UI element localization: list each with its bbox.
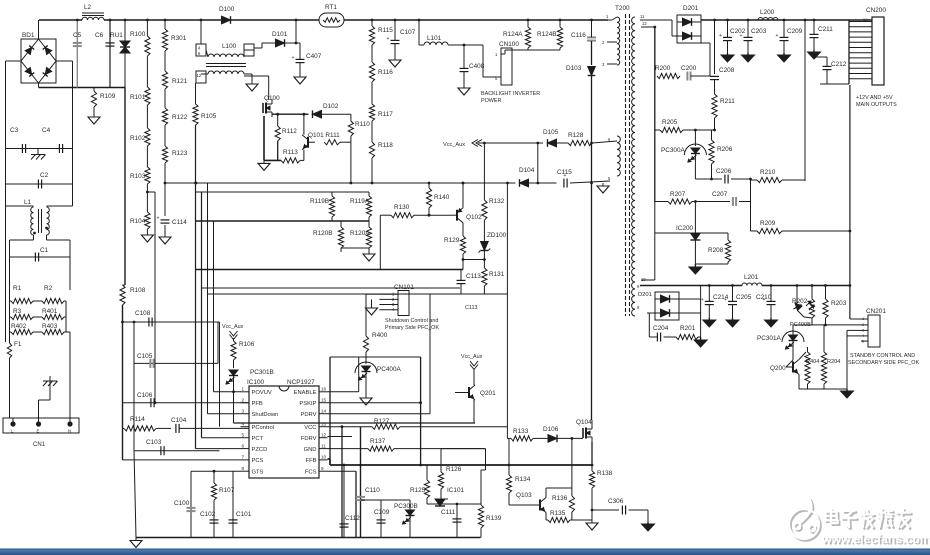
capacitor C212 (823, 57, 832, 84)
resistor R119B (329, 192, 334, 221)
wire v655 lower (654, 233, 656, 280)
CN201 pin 5 (861, 340, 868, 342)
capacitor C202 (719, 20, 732, 53)
junction L200 (726, 19, 729, 22)
transistor Q101 (302, 135, 315, 150)
capacitor C5 plates (73, 43, 82, 46)
svg-text:PC300B: PC300B (394, 503, 418, 510)
resistor R101 (145, 87, 150, 105)
ground L100 (246, 80, 258, 91)
MOSFET Q104 (583, 424, 592, 442)
ground Q100 source (258, 160, 270, 170)
T200 primary winding (617, 17, 620, 65)
wire R122-R123 (164, 125, 166, 146)
wire pin2 jog (606, 41, 608, 43)
resistor R131 (482, 268, 487, 286)
ground PC400A (360, 396, 372, 405)
capacitor C101 (229, 520, 238, 523)
svg-text:FCS: FCS (305, 469, 317, 475)
svg-text:D104: D104 (519, 167, 535, 174)
IC100 pin 3 ShutDown (241, 413, 250, 415)
wire C306 gnd drop (647, 510, 649, 522)
optocoupler PC301A (782, 331, 804, 349)
svg-text:PC300A: PC300A (661, 147, 686, 154)
ground C214 (703, 318, 716, 327)
svg-text:C115: C115 (557, 169, 572, 176)
wire D200 out join (700, 22, 702, 36)
svg-text:C200: C200 (681, 65, 697, 72)
svg-text:C202: C202 (730, 28, 746, 35)
optocoupler PC300B led (403, 510, 415, 524)
resistor R140 (426, 183, 431, 215)
svg-text:Q104: Q104 (576, 419, 592, 426)
resistor R134 (506, 475, 511, 493)
svg-text:R110: R110 (355, 121, 370, 128)
transistor Q102 (450, 208, 463, 223)
wire D201 riser (700, 286, 702, 300)
svg-text:11: 11 (321, 443, 326, 448)
wire Q201 emitter (473, 400, 475, 423)
junction C107 (394, 19, 397, 22)
svg-text:N: N (68, 429, 71, 434)
svg-text:Vcc_Aux: Vcc_Aux (443, 142, 465, 148)
capacitor C100 (187, 508, 196, 511)
ground C209 (778, 53, 791, 62)
svg-text:C109: C109 (374, 509, 390, 516)
wire C103 row (134, 450, 220, 452)
wire L1 right to line (47, 239, 71, 241)
svg-text:C116: C116 (571, 32, 586, 39)
wire R134 bottom (508, 493, 510, 505)
svg-text:R112: R112 (282, 128, 297, 135)
wire top rail D100-RT1 (231, 19, 319, 21)
junction R203 pin2 (824, 324, 827, 327)
capacitor C3 (22, 144, 25, 153)
chassis ground EMI (31, 149, 46, 160)
svg-text:C107: C107 (400, 29, 416, 36)
rectifier D201 box (655, 292, 679, 320)
svg-text:R117: R117 (378, 111, 393, 118)
wire to CN100 pin5 (482, 45, 484, 77)
wire R133 corner down (506, 427, 508, 439)
svg-text:R132: R132 (489, 198, 505, 205)
ground under C107 (389, 56, 401, 67)
resistor R132 (482, 143, 487, 220)
wire D201 out b (670, 312, 701, 314)
junction PSKIP v420 (419, 401, 422, 404)
svg-text:+: + (157, 216, 160, 222)
CN200 pin 5 (849, 57, 872, 59)
IC IC100 box (249, 386, 319, 478)
junction C306 row (591, 509, 594, 512)
wire C106 row (123, 402, 250, 404)
wire right AC line mid (72, 88, 74, 207)
svg-text:C100: C100 (174, 500, 190, 507)
resistor R115 (369, 20, 374, 45)
CN200 pin 1 (849, 78, 872, 80)
svg-text:IC200: IC200 (676, 225, 693, 232)
wire L1 right down (46, 235, 48, 240)
wire R1-R2 (33, 300, 42, 302)
svg-text:D201: D201 (638, 292, 652, 298)
wire rail to L101 (418, 20, 420, 45)
svg-text:GND: GND (304, 447, 317, 453)
ground C210 (765, 318, 778, 327)
wire divider tap (147, 191, 155, 193)
wire D201 out row (679, 298, 701, 300)
CN201 pin 3 (861, 329, 868, 331)
resistor R109 (91, 88, 96, 114)
wire D101 to C407 node (285, 42, 297, 44)
optocoupler PC400B diode (796, 286, 798, 304)
wire ZD100 bottom (483, 251, 485, 268)
wire Q200 collector (799, 352, 806, 360)
svg-text:R105: R105 (201, 113, 217, 120)
wire CN201 pin2 row (812, 324, 861, 326)
wire v750 (750, 179, 752, 231)
wire snubber right (709, 43, 711, 76)
svg-text:POWER: POWER (481, 98, 501, 104)
wire R131 bottom (483, 286, 485, 294)
wire PSKIP right (328, 402, 421, 404)
svg-text:BD1: BD1 (22, 32, 35, 39)
svg-text:R403: R403 (42, 323, 58, 330)
wire R211 bottom (714, 118, 716, 130)
wire C206 right (731, 178, 751, 180)
wire R137 right (394, 448, 486, 450)
wire R118 down (371, 158, 373, 183)
capacitor C2 (38, 180, 41, 189)
svg-text:C210: C210 (756, 294, 772, 301)
wire D105-R128 (557, 142, 569, 144)
optocoupler PC301B (226, 370, 238, 384)
svg-text:R109: R109 (100, 93, 116, 100)
IC100 pin 14 PDRV (319, 413, 328, 415)
svg-text:Vcc_Aux: Vcc_Aux (461, 354, 483, 360)
wire C112 col (343, 465, 345, 538)
watermark elecfans logo and text (791, 500, 930, 548)
svg-text:C105: C105 (137, 353, 153, 360)
svg-text:C205: C205 (736, 294, 752, 301)
wire R102-R103 (146, 146, 148, 167)
wire R127 to corner (400, 426, 507, 428)
svg-text:FDRV: FDRV (301, 436, 317, 442)
wire R208 bottom row (695, 263, 728, 265)
svg-text:2: 2 (242, 398, 245, 403)
resistor R129 (460, 236, 465, 254)
wire C100 col (190, 471, 192, 537)
wire mesh v2 (201, 192, 203, 438)
Vcc_Aux chevron Q201 (470, 361, 478, 366)
wire R136 col (571, 438, 573, 496)
capacitor C200 (687, 72, 710, 81)
wire PDRV right (328, 413, 431, 415)
wire T200 tap11 (640, 19, 672, 21)
resistor R401 (42, 314, 66, 319)
svg-text:R114: R114 (130, 416, 145, 423)
svg-text:F1: F1 (14, 341, 22, 348)
resistor R207 (668, 199, 692, 204)
svg-text:R121: R121 (172, 78, 188, 85)
wire snubber left (654, 27, 656, 76)
wire Q103 coll row (546, 487, 572, 489)
junction R123 row183 (164, 182, 167, 185)
IC100 pin 15 PSKIP (319, 402, 328, 404)
wire R net left (9, 290, 11, 332)
wire rail to L201 (707, 285, 742, 287)
resistor R3 (10, 314, 34, 319)
svg-text:MAIN OUTPUTS: MAIN OUTPUTS (856, 102, 897, 108)
wire C101 top (232, 471, 234, 480)
svg-text:Vcc_Aux: Vcc_Aux (222, 324, 244, 330)
svg-text:GTS: GTS (252, 469, 264, 475)
wire D201 out a (670, 298, 680, 300)
wire gate thick (263, 116, 265, 160)
svg-text:C111: C111 (441, 509, 456, 516)
wire R134 col (508, 438, 510, 475)
ground C202 (721, 53, 734, 62)
wire PC300B row (381, 499, 410, 501)
svg-text:Q102: Q102 (466, 214, 482, 221)
PC400B arrows (806, 301, 811, 306)
wire IC200 cathode (694, 202, 696, 234)
junction pin1 (232, 390, 235, 393)
svg-text:ENABLE: ENABLE (294, 390, 317, 396)
svg-text:R210: R210 (760, 169, 776, 176)
wire C105 row (134, 362, 218, 364)
ground C203 (742, 53, 755, 62)
svg-text:R205: R205 (662, 119, 678, 126)
junction C214 (708, 284, 711, 287)
wire C306 right (629, 509, 649, 511)
wire R105 col (195, 125, 197, 449)
junction bus VccAux (590, 142, 593, 145)
wire D102 to R110 (322, 113, 351, 115)
resistor R1 (10, 298, 34, 303)
connector CN1 (3, 418, 79, 433)
wire C109 col (380, 500, 382, 538)
Vcc_Aux chevron R106 (230, 331, 238, 336)
wire VCC row (328, 426, 373, 428)
connector CN100 (501, 48, 512, 85)
T200 core (625, 14, 627, 316)
capacitor C109 (377, 520, 386, 523)
wire CN201 pin34b (847, 335, 861, 337)
wire left AC line label (5, 148, 7, 150)
capacitor C114 (157, 216, 170, 224)
svg-text:4: 4 (242, 422, 245, 427)
junction R129 row (462, 258, 465, 261)
capacitor C105 (150, 359, 153, 368)
svg-text:C101: C101 (236, 511, 252, 518)
wire top rail L2-D100 (104, 19, 221, 21)
svg-text:R2: R2 (44, 285, 53, 292)
svg-text:R1: R1 (13, 285, 22, 292)
wire R115-R116 (371, 45, 373, 62)
wire R209 right (782, 230, 850, 232)
wire bus RV1 down (124, 88, 126, 286)
junction dots row465 (419, 464, 422, 467)
svg-text:Q201: Q201 (480, 390, 496, 397)
IC100 pin 8 GTS (241, 470, 250, 472)
wire Q100 drain (268, 76, 270, 100)
wire C407 lead (296, 42, 300, 44)
svg-text:R139: R139 (486, 515, 502, 522)
svg-text:C408: C408 (469, 63, 485, 70)
wire C212 bottom row (820, 83, 849, 85)
IC100 pin 2 PFB (241, 402, 250, 404)
wire R134 to base (509, 504, 533, 506)
svg-text:15: 15 (321, 398, 327, 403)
resistor R137 (368, 446, 394, 451)
svg-text:C212: C212 (831, 61, 847, 68)
wire v330 (329, 357, 331, 465)
svg-text:10: 10 (321, 455, 327, 460)
capacitor C112 (340, 524, 349, 527)
svg-text:R120B: R120B (313, 230, 333, 237)
wire Q200 emitter (798, 375, 800, 390)
svg-text:C110: C110 (365, 487, 380, 494)
inductor L2 (82, 12, 104, 14)
svg-text:R126: R126 (446, 466, 462, 473)
junction PFB col (154, 401, 157, 404)
resistor R301 (162, 20, 167, 51)
CN200 pin 10 (849, 31, 872, 33)
wire C204-R201 (664, 336, 677, 338)
wire FCS down (355, 471, 357, 537)
resistor R133 (511, 436, 533, 441)
wire C114 down (164, 225, 166, 232)
wire mesh v5 (219, 322, 221, 427)
wire left AC line (5, 61, 7, 342)
wire ENABLE right (328, 391, 359, 393)
junction R211 bottom (713, 129, 716, 132)
CN101 pin 1 (379, 293, 398, 295)
diode D105 (548, 139, 557, 147)
L100 primary coil (208, 54, 244, 57)
resistor R200 (657, 73, 680, 78)
T200 aux winding (617, 136, 620, 176)
junction v507 top (506, 182, 509, 185)
resistor R100 (145, 20, 150, 56)
resistor R111 (324, 140, 351, 145)
wire PC301A emit (792, 341, 794, 360)
resistor R138 (589, 471, 594, 488)
svg-text:RU1: RU1 (110, 32, 123, 39)
junction C209 (783, 19, 786, 22)
resistor R2 (42, 298, 66, 303)
junction C408 (463, 44, 466, 47)
wire Q201 collector (473, 369, 475, 385)
connector CN200 (872, 17, 884, 85)
svg-text:16: 16 (321, 387, 327, 392)
resistor R203 (823, 286, 828, 325)
wire R124B bottom stub (559, 48, 561, 50)
wire VCC drop (341, 427, 343, 538)
wire C101 col (232, 480, 234, 538)
svg-text:C113: C113 (465, 305, 478, 311)
diode D200 b (683, 32, 692, 40)
wire PCT row left (202, 437, 241, 439)
capacitor C207 (733, 197, 736, 206)
capacitor C111 (453, 519, 462, 522)
junction C111 (456, 503, 459, 506)
wire corner down (537, 143, 539, 183)
capacitor C306 (622, 506, 625, 515)
svg-text:R209: R209 (760, 220, 776, 227)
CN200 pin 11 (849, 26, 872, 28)
svg-text:R201: R201 (680, 325, 696, 332)
capacitor C107 (387, 20, 400, 56)
svg-text:Q101 R111: Q101 R111 (308, 132, 340, 139)
wire v420 (420, 357, 422, 465)
ground R201 (694, 337, 707, 347)
capacitor C408 (460, 45, 469, 85)
wire R124 bottoms (505, 49, 560, 51)
svg-text:12: 12 (321, 433, 327, 438)
wire R128 to pin6 (592, 141, 617, 143)
wire D104 to corner (529, 182, 557, 184)
CN200 pin 6 (849, 52, 872, 54)
wire Q200 emitter row (799, 388, 847, 390)
junction C112 (343, 464, 346, 467)
junction R203 (824, 284, 827, 287)
wire D201 out join (700, 299, 702, 313)
svg-text:R135: R135 (550, 510, 566, 517)
svg-text:+: + (740, 33, 743, 39)
ground C211 (808, 50, 821, 59)
wire v805 (804, 20, 806, 181)
svg-text:3: 3 (242, 409, 245, 414)
capacitor C1 (35, 253, 38, 262)
svg-text:PCT: PCT (252, 436, 264, 442)
svg-text:R106: R106 (239, 341, 255, 348)
PC400B led diagonal (795, 303, 802, 311)
svg-text:L201: L201 (744, 274, 759, 281)
IC100 pin 1 POVUV (241, 391, 250, 393)
svg-text:R3: R3 (13, 308, 22, 315)
wire IC200 anode (694, 240, 696, 264)
ground R120 (363, 252, 375, 261)
wire Q104 source (591, 442, 593, 465)
svg-text:1: 1 (606, 14, 609, 19)
wire R114-C104 (156, 427, 171, 429)
bus jog RV1-R108 (123, 284, 126, 286)
svg-text:11: 11 (640, 14, 645, 19)
wire bottom rail (136, 537, 481, 539)
wire C2 row (6, 183, 73, 185)
wire R205 row (655, 129, 660, 131)
svg-text:POVUV: POVUV (252, 390, 272, 396)
svg-text:R401: R401 (42, 308, 58, 315)
wire snubber drop (700, 313, 702, 337)
svg-text:R115: R115 (378, 27, 393, 34)
junction C407 node (295, 42, 298, 45)
resistor R114 (123, 426, 157, 431)
wire R107 to C102 (213, 500, 215, 538)
diode D201 b (661, 309, 670, 317)
svg-text:PSKIP: PSKIP (299, 401, 316, 407)
varistor RU1 lead (124, 20, 126, 88)
wire PC300B down (409, 516, 411, 538)
wire PC301A emit2 (786, 360, 793, 367)
svg-text:R129: R129 (444, 237, 460, 244)
wire FFB row thick (328, 458, 331, 460)
wire Q100 source row (272, 113, 309, 115)
wire T200 pin1 (612, 17, 617, 20)
IC100 pin 10 FFB (319, 459, 328, 461)
wire chassis jog (39, 399, 51, 401)
